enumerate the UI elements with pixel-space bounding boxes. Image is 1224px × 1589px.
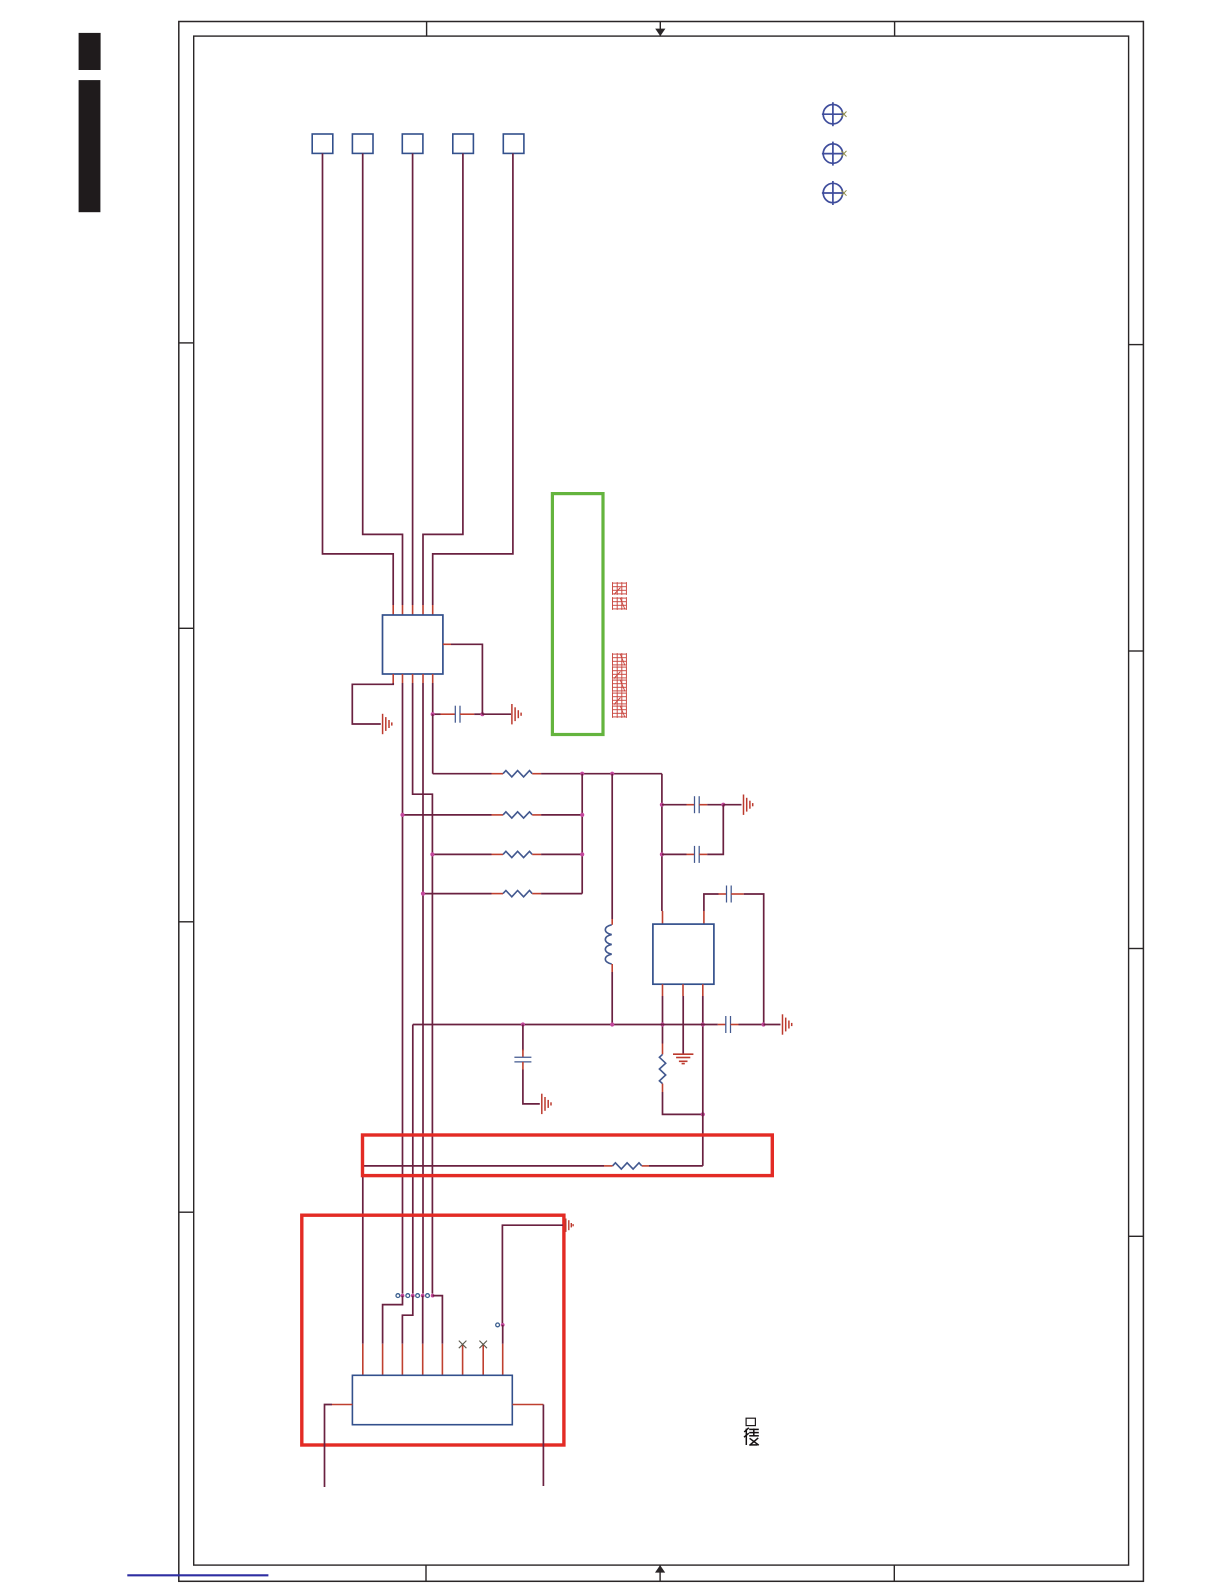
border centering arrow top bbox=[659, 22, 661, 37]
wire R6 bottom bbox=[663, 1092, 703, 1114]
emphasis red box 1 bbox=[363, 1135, 773, 1176]
border centering arrow bottom bbox=[659, 1565, 661, 1581]
wire J1 right pin down bbox=[542, 1405, 544, 1487]
border tick top-left bbox=[426, 22, 428, 37]
wire R1 right corner down bbox=[661, 774, 663, 911]
R1 right stub bbox=[532, 773, 541, 775]
wire C2 right bbox=[707, 804, 723, 806]
node L1 bottom bbox=[610, 1022, 614, 1026]
wire pad P4 to U1 pin4 bbox=[423, 153, 463, 605]
pad P4 bbox=[453, 134, 474, 153]
tie point circle 1 bbox=[396, 1294, 400, 1298]
mounting hole MH3 bbox=[822, 181, 844, 205]
node tie 2 bbox=[411, 1294, 415, 1298]
wire pad P2 to U1 pin2 bbox=[363, 153, 403, 605]
J1 top pin stubs bbox=[362, 1344, 364, 1376]
node J1b bbox=[480, 712, 484, 716]
node bus-U2left bbox=[660, 1022, 664, 1026]
J1 left pin stub bbox=[332, 1404, 352, 1406]
label text hou bbox=[744, 1428, 759, 1446]
capacitor C5 bbox=[726, 1016, 731, 1033]
R3 left wire bbox=[432, 853, 491, 855]
border inner frame bbox=[194, 36, 1129, 1565]
green emphasis box bbox=[552, 494, 603, 735]
binding bar 1 bbox=[79, 33, 101, 70]
wire J1 left pin down bbox=[325, 1405, 333, 1488]
wire L1 top bbox=[611, 774, 613, 919]
node R2 right bbox=[580, 813, 584, 817]
R2 right wire bbox=[541, 814, 582, 816]
node tie 4 bbox=[431, 1294, 435, 1298]
capacitor C2 bbox=[695, 796, 700, 813]
R1 left stub bbox=[492, 773, 504, 775]
pad P2 bbox=[352, 134, 373, 153]
border tick bottom-left bbox=[425, 1565, 427, 1581]
wire R5 right bbox=[649, 1165, 703, 1167]
tie point circle 2 bbox=[406, 1294, 410, 1298]
wire bus pin5 bbox=[432, 683, 434, 714]
wire tie1 to J1 pin2 bbox=[383, 1296, 403, 1344]
wire C2 left bbox=[662, 804, 687, 806]
wire tie3 to J1 pin4 bbox=[422, 1296, 424, 1344]
border tick left 1 bbox=[179, 342, 194, 344]
C5 right stub bbox=[731, 1024, 739, 1026]
wire tie2 to J1 pin3 bbox=[402, 1296, 412, 1344]
emphasis red box 2 bbox=[302, 1215, 564, 1445]
ground GND2 bbox=[512, 704, 521, 724]
wire C3 right up bbox=[707, 805, 723, 855]
L1 bottom stub bbox=[611, 964, 613, 972]
R6 bottom stub bbox=[662, 1084, 664, 1092]
ground GND3 bbox=[744, 795, 753, 815]
J1 right pin stub bbox=[513, 1404, 544, 1406]
U2 bottom pin stubs bbox=[662, 984, 664, 996]
wire C4 right down bbox=[744, 894, 764, 1025]
wire C4 left from U2 pin bbox=[704, 894, 719, 911]
wire net down to R5 bbox=[702, 1025, 704, 1166]
connector J1 bbox=[352, 1375, 512, 1424]
node bus3-R3 bbox=[430, 852, 434, 856]
wire U2 pin mid to ground bbox=[682, 996, 684, 1054]
wire C2 right to GND3 bbox=[723, 804, 741, 806]
label text cedian-bukezai bbox=[613, 653, 627, 666]
wire U2 right pin down bbox=[702, 996, 704, 1025]
C2 right stub bbox=[699, 804, 707, 806]
wire pad P5 to U1 pin5 bbox=[433, 153, 513, 605]
wire node C1 left bbox=[433, 713, 441, 715]
resistor R4 bbox=[503, 891, 532, 897]
C1 right stub bbox=[460, 713, 474, 715]
border tick right 2 bbox=[1129, 650, 1144, 652]
vertical net R right bbox=[581, 774, 583, 894]
R1 left wire bbox=[433, 773, 492, 775]
border tick bottom-right bbox=[893, 1565, 895, 1581]
border tick left 3 bbox=[179, 921, 194, 923]
capacitor C1 bbox=[455, 706, 460, 723]
L1 top stub bbox=[611, 919, 613, 925]
wire horizontal net bbox=[413, 1024, 718, 1026]
inductor L1 bbox=[605, 925, 611, 964]
node J1a bbox=[431, 712, 435, 716]
capacitor C4 bbox=[727, 886, 732, 903]
C4 right stub bbox=[731, 893, 744, 895]
node R6-net bbox=[701, 1112, 705, 1116]
tie point circle 5 bbox=[496, 1323, 500, 1327]
ground GND7 bbox=[566, 1219, 573, 1232]
R1 right wire bbox=[541, 773, 662, 775]
border tick right 4 bbox=[1129, 1235, 1144, 1237]
R3 left stub bbox=[492, 853, 504, 855]
wire U1 pin1 to ground bbox=[352, 683, 393, 724]
op-amp U2 bbox=[653, 924, 714, 984]
node C2 left bbox=[660, 803, 664, 807]
border tick top-right bbox=[894, 22, 896, 37]
C2 left stub bbox=[687, 804, 695, 806]
wire bus pin3 jog bbox=[413, 683, 433, 1294]
node R3 right bbox=[580, 852, 584, 856]
C4 left stub bbox=[719, 893, 727, 895]
border outer frame bbox=[179, 22, 1144, 1582]
C6 top stub bbox=[522, 1050, 524, 1058]
pad P3 bbox=[402, 134, 423, 153]
R5 left stub bbox=[604, 1165, 613, 1167]
wire pin8 net bbox=[502, 1225, 562, 1325]
C6 bottom stub bbox=[522, 1062, 524, 1070]
wire C6 top bbox=[522, 1025, 524, 1051]
node C2 right bbox=[721, 803, 725, 807]
R2 left stub bbox=[492, 814, 504, 816]
resistor R2 bbox=[503, 812, 532, 818]
C1 left stub bbox=[441, 713, 456, 715]
wire C6 bottom to GND6 bbox=[523, 1070, 540, 1104]
resistor R3 bbox=[503, 851, 532, 857]
U2 top pin stubs bbox=[662, 911, 664, 924]
wire bus pin2 bbox=[402, 683, 404, 1294]
wire to GND5 bbox=[764, 1024, 781, 1026]
no-connect X pin6 bbox=[459, 1341, 467, 1349]
R5 right stub bbox=[642, 1165, 649, 1167]
ground GND4 bbox=[673, 1054, 693, 1063]
U1 top pin stubs bbox=[392, 605, 394, 615]
pad P5 bbox=[503, 134, 524, 153]
C3 right stub bbox=[699, 853, 707, 855]
tie point circle 4 bbox=[426, 1294, 430, 1298]
wire node J1a to R1 bbox=[432, 714, 434, 774]
R3 right wire bbox=[541, 853, 582, 855]
wire C5 right bbox=[739, 1024, 764, 1026]
wire node to GND2 bbox=[482, 713, 511, 715]
wire bus5 down bbox=[412, 1025, 414, 1294]
binding bar 2 bbox=[79, 80, 101, 212]
U1 right pin stub bbox=[443, 643, 451, 645]
wire pad P1 to U1 pin1 bbox=[323, 153, 394, 605]
op-amp U1 bbox=[383, 615, 443, 674]
R2 left wire bbox=[403, 814, 492, 816]
wire U2 left pin down bbox=[662, 996, 664, 1044]
R4 left wire bbox=[423, 893, 492, 895]
node tie 3 bbox=[421, 1294, 425, 1298]
wire pad P3 to U1 pin3 bbox=[412, 153, 414, 605]
C5 left stub bbox=[718, 1024, 726, 1026]
no-connect X pin7 bbox=[479, 1341, 487, 1349]
wire tie5 to J1 pin8 bbox=[502, 1325, 504, 1344]
node C6 top bbox=[521, 1022, 525, 1026]
capacitor C3 bbox=[695, 846, 700, 863]
border tick left 2 bbox=[179, 627, 194, 629]
R4 right wire bbox=[541, 893, 582, 895]
wire bus pin4 bbox=[422, 683, 424, 1294]
resistor R6 bbox=[659, 1054, 665, 1083]
pad P1 bbox=[312, 134, 333, 153]
node bus4-R4 bbox=[421, 892, 425, 896]
R3 right stub bbox=[532, 853, 541, 855]
U1 bottom pin stubs bbox=[392, 674, 394, 683]
ground GND1 bbox=[383, 714, 392, 734]
resistor R1 bbox=[503, 771, 532, 777]
blue reference line bbox=[127, 1574, 268, 1576]
wire R5 left long bbox=[363, 1166, 604, 1344]
node tie 1 bbox=[401, 1294, 405, 1298]
label missing-glyph box bbox=[746, 1418, 755, 1425]
capacitor C6 bbox=[514, 1057, 531, 1062]
wire C1 right to node bbox=[474, 713, 482, 715]
node R1-L1 bbox=[610, 772, 614, 776]
node tie 5 bbox=[501, 1323, 505, 1327]
C3 left stub bbox=[687, 853, 695, 855]
wire L1 bottom bbox=[611, 972, 613, 1025]
mounting hole MH1 bbox=[822, 102, 844, 126]
node C3 left bbox=[660, 852, 664, 856]
R6 top stub bbox=[662, 1044, 664, 1055]
wire tie4 to J1 pin5 bbox=[433, 1296, 443, 1344]
node bus-U2right bbox=[701, 1022, 705, 1026]
node C5 right bbox=[761, 1022, 765, 1026]
label text mian-chu bbox=[613, 582, 627, 595]
resistor R5 bbox=[613, 1163, 642, 1169]
R4 right stub bbox=[532, 893, 541, 895]
wire node to U1 right pin bbox=[451, 644, 482, 714]
border tick right 3 bbox=[1129, 948, 1144, 950]
node R1-R234 bbox=[580, 772, 584, 776]
ground GND6 bbox=[542, 1094, 551, 1114]
node bus2-R2 bbox=[400, 813, 404, 817]
border tick right 1 bbox=[1129, 344, 1144, 346]
ground GND5 bbox=[783, 1014, 792, 1034]
wire C3 left bbox=[662, 853, 687, 855]
R2 right stub bbox=[532, 814, 541, 816]
border tick left 4 bbox=[179, 1211, 194, 1213]
R4 left stub bbox=[492, 893, 504, 895]
mounting hole MH2 bbox=[822, 142, 844, 166]
tie point circle 3 bbox=[416, 1294, 420, 1298]
